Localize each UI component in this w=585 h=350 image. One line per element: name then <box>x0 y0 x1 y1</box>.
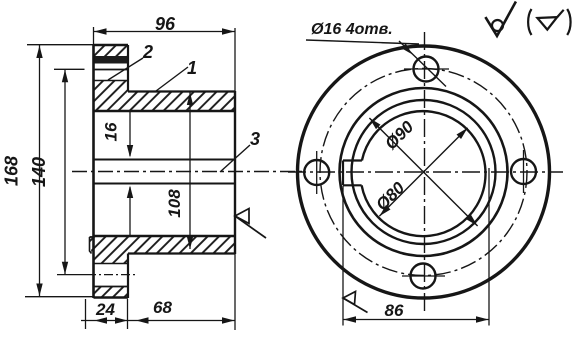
svg-text:24: 24 <box>95 300 115 319</box>
svg-text:2: 2 <box>142 42 153 62</box>
svg-text:68: 68 <box>153 298 172 317</box>
svg-text:16: 16 <box>102 122 121 141</box>
svg-text:Ø16 4отв.: Ø16 4отв. <box>311 21 393 38</box>
svg-text:140: 140 <box>29 157 49 187</box>
svg-text:96: 96 <box>155 14 176 34</box>
svg-text:1: 1 <box>187 58 197 78</box>
svg-text:168: 168 <box>2 156 22 186</box>
svg-text:3: 3 <box>250 129 260 149</box>
svg-text:86: 86 <box>385 301 404 320</box>
svg-text:108: 108 <box>165 189 184 218</box>
